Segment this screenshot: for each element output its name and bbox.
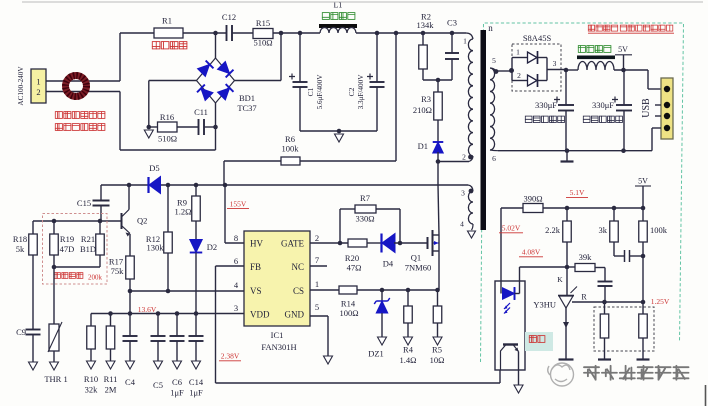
svg-text:1.2Ω: 1.2Ω xyxy=(175,207,192,217)
wire TL431 anode xyxy=(559,308,574,360)
svg-text:2: 2 xyxy=(36,87,40,97)
svg-text:1.4Ω: 1.4Ω xyxy=(400,355,417,365)
wire opto anode xyxy=(500,208,502,294)
label 2.38V xyxy=(219,352,241,361)
svg-text:330μF: 330μF xyxy=(592,100,614,110)
label 5V output xyxy=(615,45,632,72)
svg-text:2: 2 xyxy=(315,233,319,243)
IC pin label HV xyxy=(250,239,263,249)
rectifier diode lower xyxy=(512,71,547,87)
svg-text:32k: 32k xyxy=(85,385,99,395)
svg-text:6: 6 xyxy=(492,154,496,163)
capacitor C2 electrolytic xyxy=(367,31,385,131)
green dashed secondary box xyxy=(481,23,684,362)
wire CS pin xyxy=(310,289,339,291)
pin number 2 xyxy=(315,233,319,243)
resistor R5 xyxy=(430,290,445,365)
svg-text:4: 4 xyxy=(234,280,239,290)
svg-text:8: 8 xyxy=(234,233,238,243)
ground THR1 xyxy=(44,362,67,384)
svg-text:5.1V: 5.1V xyxy=(570,188,585,197)
wire ref line 1.25V xyxy=(605,297,670,306)
svg-text:5V: 5V xyxy=(618,45,628,54)
svg-text:R16: R16 xyxy=(160,112,174,122)
wire pin5 to rectifier xyxy=(490,68,514,74)
svg-text:R20: R20 xyxy=(345,253,359,263)
svg-text:IC1: IC1 xyxy=(271,330,284,340)
svg-text:THR 1: THR 1 xyxy=(44,374,67,384)
svg-text:C15: C15 xyxy=(77,198,91,208)
svg-text:4.08V: 4.08V xyxy=(522,248,541,257)
pin 4 label xyxy=(460,220,464,229)
IC pin label CS xyxy=(293,286,304,296)
capacitor C12 xyxy=(222,12,236,41)
svg-text:13.6V: 13.6V xyxy=(138,305,157,314)
svg-text:5: 5 xyxy=(492,56,496,65)
svg-text:100Ω: 100Ω xyxy=(339,308,358,318)
wire bus caps bottom rail xyxy=(300,129,377,134)
svg-text:C1: C1 xyxy=(306,87,315,96)
IC pin label VDD xyxy=(250,310,270,320)
resistor 2.2k xyxy=(545,208,571,267)
svg-text:S8A45S: S8A45S xyxy=(523,33,552,43)
wire D4 to gate xyxy=(394,241,427,246)
label 5.02V xyxy=(499,224,523,233)
wire R6 left down to HV line xyxy=(223,161,225,185)
wire Q1 source to CS xyxy=(438,251,440,290)
svg-text:C5: C5 xyxy=(153,380,163,390)
svg-text:2.38V: 2.38V xyxy=(221,352,240,361)
svg-text:3: 3 xyxy=(461,189,465,198)
svg-text:210Ω: 210Ω xyxy=(413,105,432,115)
capacitor C15 xyxy=(77,185,110,221)
diode D1 xyxy=(418,120,444,153)
rectifier S8A45S dashed box xyxy=(512,44,561,91)
pin 3 label xyxy=(461,189,473,198)
transistor Q1 7NM60 xyxy=(405,230,439,273)
pin 1 label xyxy=(463,37,467,46)
capacitor C5 xyxy=(151,314,166,391)
pin number 6 xyxy=(234,256,238,266)
svg-text:1: 1 xyxy=(463,37,467,46)
svg-text:3k: 3k xyxy=(599,225,608,235)
label L1 green xyxy=(322,13,355,20)
svg-text:C14: C14 xyxy=(189,377,204,387)
label R1 fuse-resistor xyxy=(152,42,187,49)
wire R6 right to bus xyxy=(300,31,398,161)
thermistor THR1 xyxy=(48,267,62,362)
wire VDD line xyxy=(91,311,244,316)
svg-text:10Ω: 10Ω xyxy=(430,355,445,365)
node cap1 top xyxy=(564,68,569,73)
wire GATE pin xyxy=(310,241,348,246)
svg-text:75k: 75k xyxy=(111,266,125,276)
pin 2 label xyxy=(462,153,473,162)
wire FB pin to opto xyxy=(216,266,501,383)
svg-text:C11: C11 xyxy=(194,107,208,117)
zener DZ1 xyxy=(368,290,390,359)
capacitor C9 xyxy=(16,255,40,362)
svg-text:Q2: Q2 xyxy=(137,216,147,226)
svg-text:330Ω: 330Ω xyxy=(355,214,374,224)
svg-text:C6: C6 xyxy=(172,377,182,387)
svg-text:B1D: B1D xyxy=(80,244,96,254)
svg-text:5.02V: 5.02V xyxy=(502,224,521,233)
resistor 390ohm xyxy=(501,194,567,213)
svg-text:D4: D4 xyxy=(383,259,394,269)
svg-text:R7: R7 xyxy=(360,193,370,203)
label output inductor green xyxy=(578,46,611,53)
svg-text:n: n xyxy=(488,23,493,33)
wire bridge left to R16 node xyxy=(149,81,197,128)
dashed box photoresistor xyxy=(43,214,108,285)
wire HV pin xyxy=(225,185,244,243)
opto LED xyxy=(503,287,520,314)
svg-text:R1: R1 xyxy=(162,16,172,26)
svg-text:TC37: TC37 xyxy=(237,103,256,113)
wire D1 to drain and pin2 xyxy=(436,152,473,235)
ground bus caps xyxy=(335,134,344,142)
svg-text:100k: 100k xyxy=(650,225,668,235)
wire Q2 base line xyxy=(33,219,122,224)
wire VS line xyxy=(128,289,244,294)
svg-text:C2: C2 xyxy=(347,87,356,96)
resistor R12 xyxy=(146,185,172,291)
wire R21 to R19 bottom xyxy=(52,255,100,269)
svg-text:2: 2 xyxy=(517,71,521,80)
capacitor C11 xyxy=(177,107,208,135)
pin 6 label xyxy=(492,154,496,163)
label IC1 xyxy=(261,330,296,352)
svg-text:47D: 47D xyxy=(60,244,75,254)
svg-text:D1: D1 xyxy=(418,141,428,151)
wire TL431 ref xyxy=(572,293,607,305)
resistor R16 xyxy=(149,112,177,144)
wire aux line xyxy=(101,185,473,191)
scan border right xyxy=(705,385,707,406)
svg-text:R10: R10 xyxy=(84,374,98,384)
rectifier input split xyxy=(511,58,513,81)
label input filter note line1 xyxy=(55,112,105,119)
wire bridge bottom xyxy=(120,103,216,150)
svg-text:FAN301H: FAN301H xyxy=(261,342,296,352)
node after R15 xyxy=(279,31,284,81)
svg-text:100k: 100k xyxy=(282,144,300,154)
pin 5 label xyxy=(492,56,496,65)
svg-text:510Ω: 510Ω xyxy=(158,134,177,144)
svg-text:155V: 155V xyxy=(230,200,247,209)
watermark text xyxy=(584,366,689,380)
svg-text:2.2k: 2.2k xyxy=(545,225,561,235)
TL431 Y3HU xyxy=(533,287,577,310)
pin number 8 xyxy=(234,233,238,243)
label C1 value xyxy=(306,74,324,110)
diode D2 xyxy=(190,221,217,314)
label 5V right xyxy=(635,177,651,209)
wire NC stub xyxy=(310,265,327,267)
svg-text:1: 1 xyxy=(315,279,319,289)
ground C9 xyxy=(29,362,38,370)
wire bridge right up xyxy=(235,80,282,82)
divider dashed box xyxy=(594,307,654,351)
ground aux winding xyxy=(468,231,476,238)
scan border top xyxy=(22,1,703,3)
wire opto emitter ground xyxy=(514,370,523,393)
svg-text:HV: HV xyxy=(250,239,263,249)
svg-text:K: K xyxy=(557,275,563,284)
capacitor 39k comp xyxy=(595,268,613,303)
connector J1 AC input xyxy=(31,69,46,103)
resistor R6 xyxy=(224,134,300,165)
svg-text:1.25V: 1.25V xyxy=(651,297,670,306)
wire CS to source xyxy=(357,288,440,293)
svg-text:GND: GND xyxy=(285,310,305,320)
transformer secondary winding xyxy=(490,68,495,150)
node R9 top xyxy=(194,183,199,188)
svg-text:6: 6 xyxy=(234,256,238,266)
svg-text:510Ω: 510Ω xyxy=(253,38,272,48)
wire GND pin xyxy=(310,316,333,364)
label 330uF second xyxy=(583,100,622,123)
capacitor C14 xyxy=(189,314,204,398)
svg-text:5V: 5V xyxy=(638,177,648,186)
svg-text:C12: C12 xyxy=(222,12,236,22)
bridge diode top-right xyxy=(218,62,234,78)
label 330uF first xyxy=(525,100,564,123)
opto coupler box xyxy=(495,281,525,370)
resistor R4 xyxy=(400,290,417,365)
svg-text:C3: C3 xyxy=(447,18,457,28)
bridge diode bottom-right xyxy=(218,84,234,100)
resistor R11 xyxy=(104,314,118,395)
svg-text:C9: C9 xyxy=(16,327,26,337)
pin number 7 xyxy=(315,255,319,265)
wire R2 C3 join xyxy=(423,78,452,92)
label n xyxy=(488,23,493,33)
label 155V xyxy=(227,200,249,209)
svg-text:1: 1 xyxy=(36,77,40,87)
watermark logo xyxy=(548,363,574,386)
capacitor C3 xyxy=(445,18,459,81)
svg-text:5.6μF/400V: 5.6μF/400V xyxy=(316,74,324,110)
resistor R7 loop xyxy=(340,193,400,243)
capacitor C4 xyxy=(123,291,138,387)
wire top rail from input to transformer xyxy=(120,33,473,39)
svg-text:R3: R3 xyxy=(421,94,431,104)
wire from connector pin1 xyxy=(46,33,120,81)
transformer primary winding xyxy=(468,39,473,156)
svg-text:390Ω: 390Ω xyxy=(523,194,542,204)
svg-text:134k: 134k xyxy=(417,20,435,30)
svg-text:D2: D2 xyxy=(207,242,217,252)
svg-text:GATE: GATE xyxy=(281,239,304,249)
wire TL431 cathode xyxy=(557,267,567,296)
wire opto cathode xyxy=(520,265,570,294)
svg-text:R: R xyxy=(581,293,587,302)
svg-text:Q1: Q1 xyxy=(411,253,421,263)
svg-text:FB: FB xyxy=(250,262,261,272)
bridge diode top-left xyxy=(198,61,214,77)
wire from connector pin2 xyxy=(46,92,120,151)
svg-text:5: 5 xyxy=(315,302,319,312)
label 5.1V xyxy=(566,188,588,197)
wire 5V rail secondary xyxy=(565,206,646,211)
IC pin label NC xyxy=(291,262,304,272)
capacitor C1 electrolytic xyxy=(289,31,308,131)
pin number 3 xyxy=(234,303,238,313)
svg-text:R11: R11 xyxy=(104,374,118,384)
pin number 1 xyxy=(315,279,319,289)
svg-text:3: 3 xyxy=(553,59,557,68)
resistor R14 xyxy=(339,286,359,318)
capacitor C6 xyxy=(170,314,185,398)
ground secondary xyxy=(561,151,574,162)
svg-text:R18: R18 xyxy=(13,234,27,244)
node HV branch xyxy=(223,183,228,188)
resistor 3k xyxy=(599,208,619,242)
label 13.6V xyxy=(138,305,157,314)
resistor R10 xyxy=(84,314,98,395)
resistor R18 xyxy=(13,221,37,255)
transformer core xyxy=(481,30,487,230)
label BD1 xyxy=(237,93,256,113)
svg-text:CS: CS xyxy=(293,286,304,296)
USB connector xyxy=(641,78,673,139)
svg-text:R5: R5 xyxy=(432,345,442,355)
svg-text:VS: VS xyxy=(250,286,262,296)
node C11 bridge bottom xyxy=(205,125,218,130)
resistor 39k xyxy=(567,252,595,272)
IC pin label GATE xyxy=(281,239,304,249)
svg-text:47Ω: 47Ω xyxy=(347,263,362,273)
svg-text:BD1: BD1 xyxy=(239,93,255,103)
diode D5 xyxy=(149,163,161,194)
wire to USB top xyxy=(648,70,661,89)
pin number 5 xyxy=(315,302,319,312)
svg-text:4: 4 xyxy=(460,220,464,229)
resistor R20 xyxy=(345,239,367,273)
svg-text:R4: R4 xyxy=(403,345,414,355)
svg-text:R21: R21 xyxy=(81,234,95,244)
svg-text:Y3HU: Y3HU xyxy=(533,300,556,310)
svg-text:1μF: 1μF xyxy=(189,388,203,398)
rectifier diode upper xyxy=(512,48,547,65)
svg-text:VDD: VDD xyxy=(250,310,270,320)
svg-text:1: 1 xyxy=(516,48,520,57)
svg-text:R14: R14 xyxy=(341,299,356,309)
svg-text:NC: NC xyxy=(291,262,304,272)
svg-text:USB: USB xyxy=(641,98,652,118)
svg-text:2M: 2M xyxy=(105,385,117,395)
IC pin label FB xyxy=(250,262,261,272)
svg-text:7: 7 xyxy=(315,255,319,265)
label opto xyxy=(525,332,553,351)
capacitor comp xyxy=(614,242,645,262)
resistor R2 xyxy=(417,12,435,81)
resistor R15 xyxy=(253,18,273,48)
svg-text:DZ1: DZ1 xyxy=(368,349,384,359)
resistor R17 xyxy=(109,234,134,291)
IC U1 FAN301H body xyxy=(244,231,310,326)
resistor R1 xyxy=(154,16,183,39)
svg-text:3: 3 xyxy=(234,303,238,313)
svg-text:330μF: 330μF xyxy=(535,100,557,110)
divider resistor lower xyxy=(637,302,650,360)
svg-text:R19: R19 xyxy=(60,234,74,244)
capacitor output 330uF second xyxy=(612,70,632,151)
svg-text:130k: 130k xyxy=(147,243,165,253)
wire secondary bottom rail xyxy=(490,128,661,153)
svg-text:R15: R15 xyxy=(256,18,270,28)
label 4.08V xyxy=(519,248,543,257)
resistor 100k xyxy=(639,208,668,302)
resistor R21 xyxy=(80,221,104,255)
svg-text:200k: 200k xyxy=(88,274,103,282)
rectifier output join xyxy=(547,58,566,81)
svg-text:1μF: 1μF xyxy=(170,388,184,398)
opto transistor xyxy=(501,345,519,371)
svg-text:7NM60: 7NM60 xyxy=(405,263,431,273)
pin number 4 xyxy=(234,280,239,290)
output inductor xyxy=(566,56,648,71)
svg-text:C4: C4 xyxy=(125,377,136,387)
svg-text:R17: R17 xyxy=(109,257,123,267)
divider resistor upper xyxy=(598,302,611,360)
svg-text:R6: R6 xyxy=(285,134,295,144)
IC pin label GND xyxy=(285,310,305,320)
label secondary note xyxy=(588,25,674,33)
svg-text:3.3μF/400V: 3.3μF/400V xyxy=(357,74,365,110)
label AC100-240V xyxy=(17,66,25,106)
bridge BD1 frame xyxy=(197,58,235,103)
node R12 top xyxy=(166,183,171,188)
label 200k note xyxy=(54,273,102,282)
svg-text:AC100-240V: AC100-240V xyxy=(17,66,25,106)
svg-text:5k: 5k xyxy=(16,244,25,254)
label input filter note line2 xyxy=(55,124,105,131)
diode D4 xyxy=(367,234,395,269)
resistor R3 xyxy=(413,92,442,120)
resistor R9 xyxy=(175,185,201,221)
label C2 value xyxy=(347,74,365,110)
resistor R19 xyxy=(50,221,75,255)
svg-text:2: 2 xyxy=(462,153,466,162)
capacitor output 330uF first xyxy=(554,70,574,151)
svg-text:D5: D5 xyxy=(149,163,159,173)
node Q2 collector xyxy=(127,183,132,188)
node bridge top xyxy=(213,31,218,58)
ground node left of R16 xyxy=(144,125,153,138)
common-mode choke toroid xyxy=(66,76,87,97)
IC pin label VS xyxy=(250,286,262,296)
bridge diode bottom-left xyxy=(197,85,213,101)
transistor Q2 xyxy=(122,185,148,237)
svg-text:39k: 39k xyxy=(579,252,593,262)
label S8A45S xyxy=(523,33,552,43)
transformer aux winding xyxy=(468,191,473,230)
inductor L1 xyxy=(319,1,357,34)
